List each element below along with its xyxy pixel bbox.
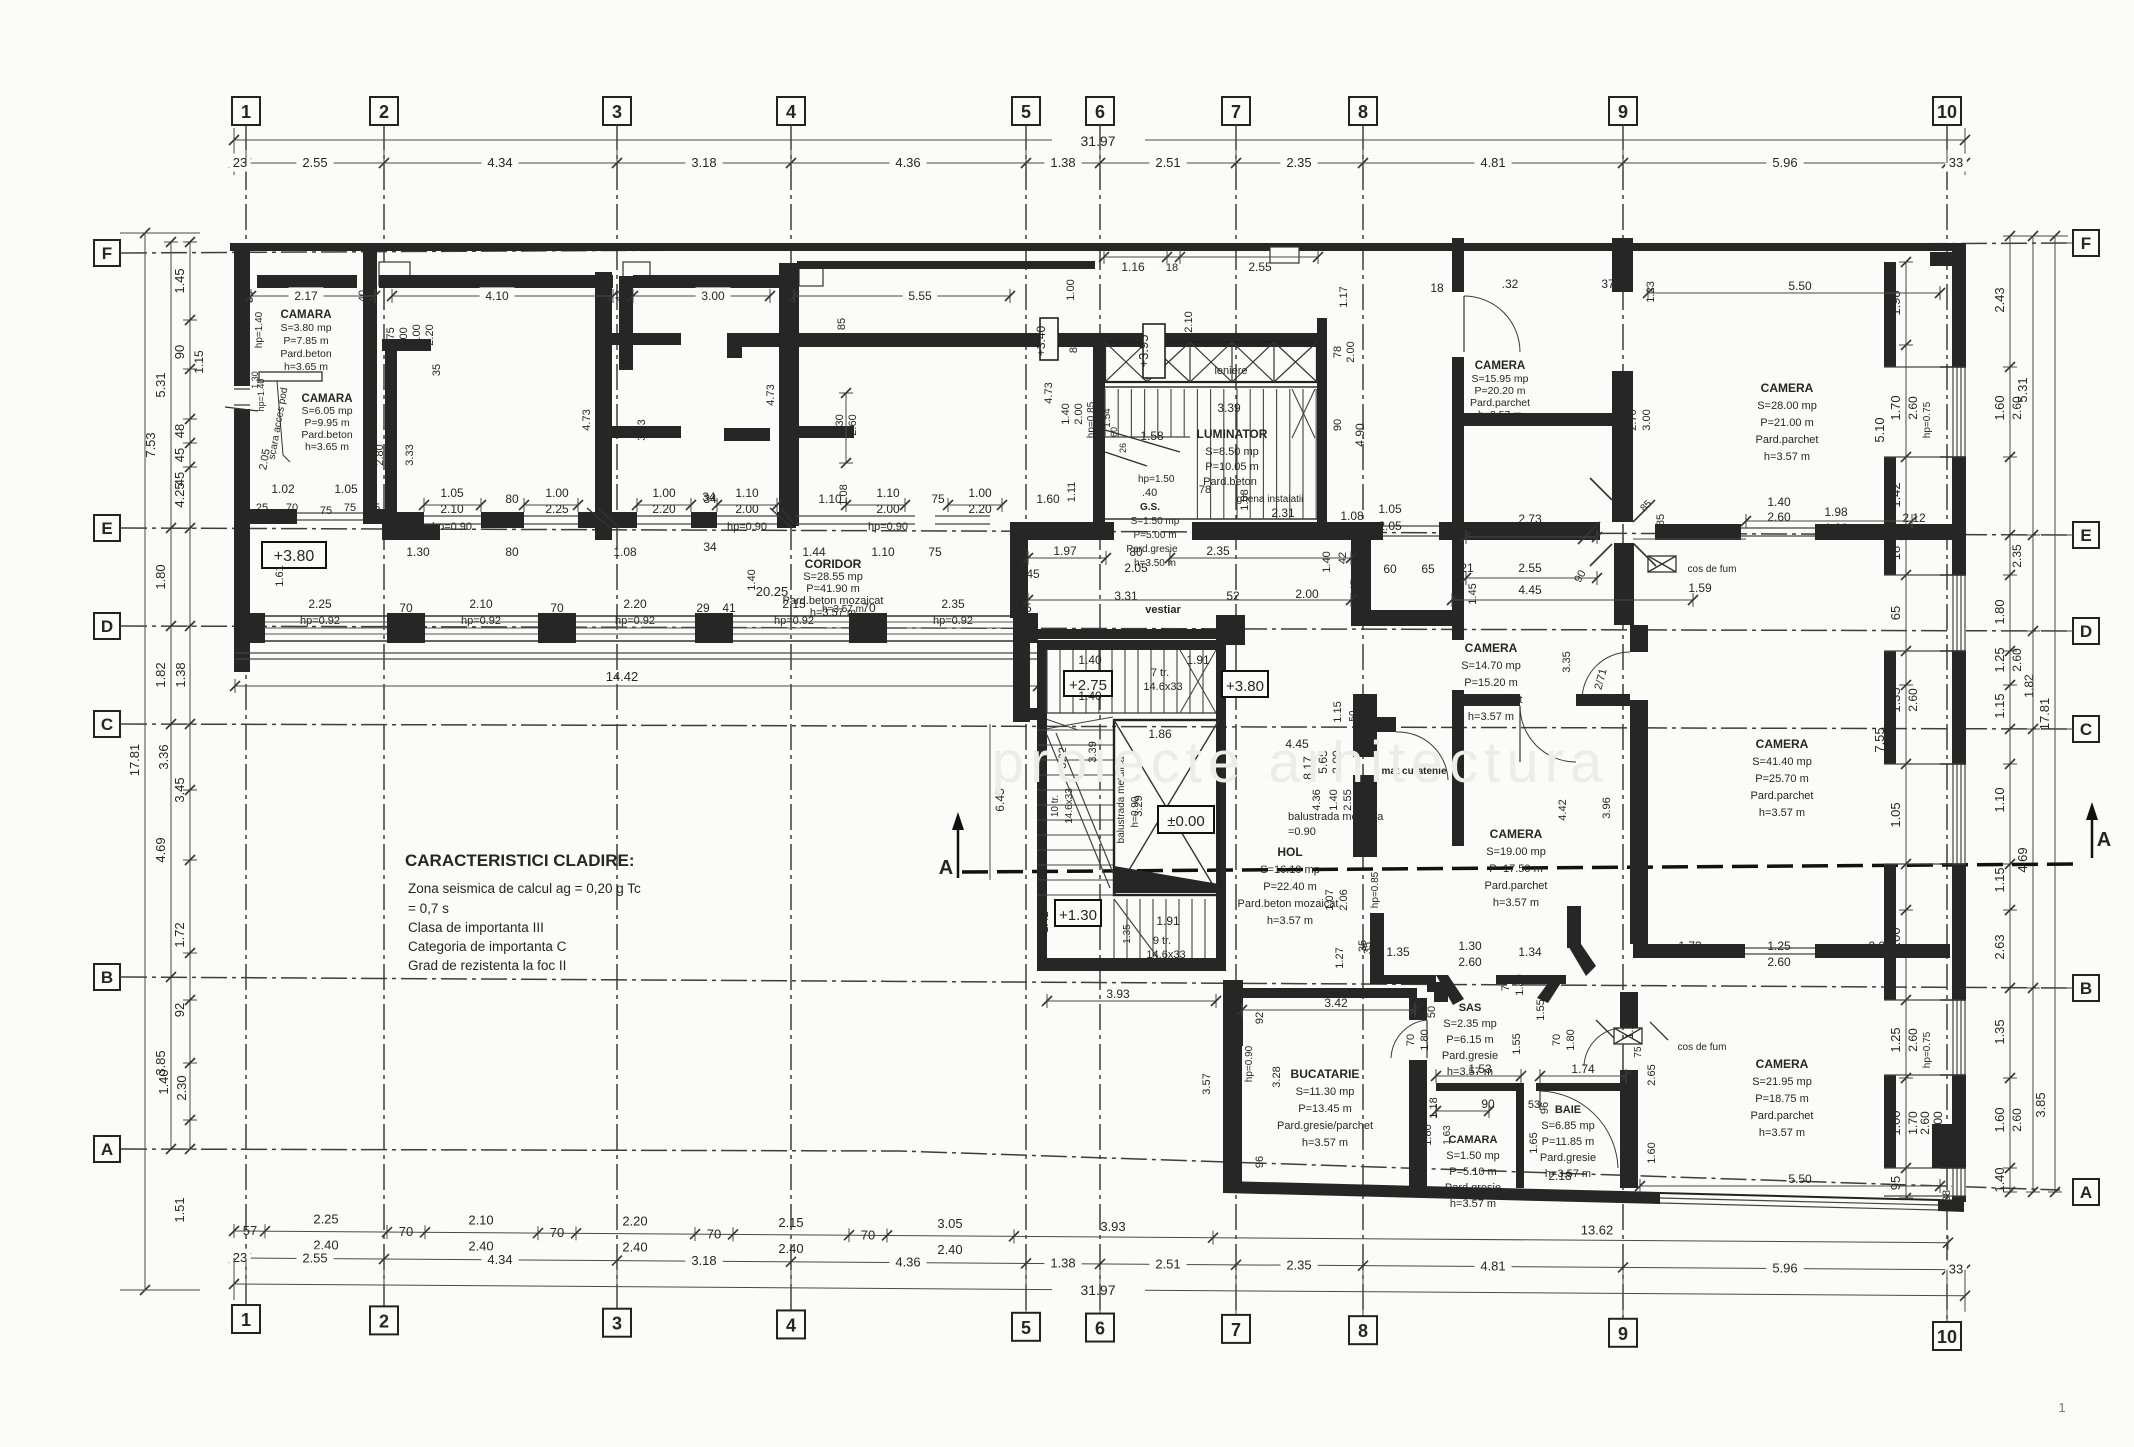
room label CAMERA 28.00 (1756, 381, 1819, 463)
right facade wall inner face + window bays (1884, 262, 1966, 1196)
room label CAMERA 21.95 (1751, 1057, 1814, 1139)
svg-text:4: 4 (786, 1315, 796, 1335)
grid column line 1 (232, 97, 260, 1333)
svg-text:70: 70 (861, 1227, 875, 1242)
svg-text:Pard.gresie: Pard.gresie (1540, 1152, 1596, 1164)
svg-text:1.05: 1.05 (334, 482, 358, 496)
svg-text:leniere: leniere (1214, 365, 1247, 377)
CAMERA 17.50 north wall with door opening (1452, 694, 1520, 706)
svg-text:S=6.85 mp: S=6.85 mp (1541, 1120, 1595, 1132)
left wing south facade wall band along D with window piers (234, 613, 1038, 659)
room label CAMARA 6.05 (301, 393, 353, 453)
svg-text:18: 18 (1166, 262, 1178, 274)
col 3 room divider wall (595, 272, 612, 540)
top dimension chain (bay widths) (229, 125, 1970, 172)
svg-text:P=21.00 m: P=21.00 m (1760, 417, 1814, 429)
svg-text:1: 1 (2058, 1400, 2065, 1415)
bottom rooms dimension labels (1201, 974, 1953, 1202)
grid column line 6 (1086, 97, 1114, 1342)
svg-text:4.50: 4.50 (594, 414, 606, 435)
svg-text:2.40: 2.40 (622, 1240, 647, 1255)
svg-text:17.81: 17.81 (127, 744, 142, 777)
vestiar east wall (1351, 540, 1371, 618)
room label CAMERA 17.50 (1485, 827, 1548, 909)
svg-text:2.20: 2.20 (424, 324, 436, 345)
camara south wall / corridor north wall west part (234, 509, 297, 524)
svg-text:1.91: 1.91 (1156, 914, 1180, 928)
svg-text:95: 95 (1941, 1156, 1953, 1168)
luminator stair treads (1105, 387, 1317, 519)
svg-text:7 tr.: 7 tr. (1151, 667, 1169, 679)
svg-text:3: 3 (612, 102, 622, 122)
svg-text:2.55: 2.55 (302, 1251, 327, 1266)
wall west of CAMERA 15.95 (1452, 357, 1464, 640)
svg-text:1.38: 1.38 (1050, 1256, 1075, 1271)
wall between SAS and CAMARA 1.50 (1436, 1083, 1524, 1091)
svg-text:Pard.beton mozaicat: Pard.beton mozaicat (1238, 898, 1339, 910)
svg-text:43: 43 (614, 290, 626, 302)
svg-text:CORIDOR: CORIDOR (805, 557, 862, 571)
svg-text:31.97: 31.97 (1080, 133, 1115, 149)
room label CAMERA 14.70 (1460, 641, 1523, 723)
stub wall right of col 2 (382, 339, 431, 351)
svg-text:1.25: 1.25 (1992, 647, 2007, 672)
section line A-A (939, 802, 2111, 879)
svg-text:2.00: 2.00 (735, 502, 759, 516)
hall labels right of stair (1288, 750, 1384, 969)
svg-text:3.18: 3.18 (691, 1253, 716, 1268)
svg-text:2.10: 2.10 (1183, 311, 1195, 332)
svg-text:S=41.40 mp: S=41.40 mp (1752, 756, 1812, 768)
svg-text:5.10: 5.10 (1872, 417, 1887, 442)
svg-text:45: 45 (172, 448, 187, 462)
svg-text:1.02: 1.02 (271, 482, 295, 496)
svg-text:3.57: 3.57 (1201, 1073, 1213, 1094)
svg-text:1.40: 1.40 (1060, 403, 1072, 424)
svg-text:Pard.parchet: Pard.parchet (1470, 397, 1530, 409)
svg-text:75: 75 (928, 545, 942, 559)
svg-text:65: 65 (1888, 606, 1903, 620)
svg-text:78: 78 (1199, 484, 1211, 496)
svg-text:2: 2 (379, 1311, 389, 1331)
svg-text:B: B (2080, 979, 2092, 998)
svg-text:85: 85 (1068, 341, 1080, 353)
svg-text:35: 35 (431, 364, 443, 376)
splayed window reveals at col3 (587, 508, 610, 528)
svg-text:1.40: 1.40 (1078, 653, 1102, 667)
svg-text:35: 35 (1225, 996, 1237, 1008)
svg-text:Pard.beton: Pard.beton (280, 348, 332, 360)
svg-text:1.97: 1.97 (1053, 544, 1077, 558)
svg-text:4.10: 4.10 (485, 289, 509, 303)
svg-text:1.44: 1.44 (802, 545, 826, 559)
svg-text:hp=0.90: hp=0.90 (432, 521, 472, 533)
svg-text:CAMERA: CAMERA (1756, 737, 1809, 751)
svg-text:3.39: 3.39 (1217, 401, 1241, 415)
middle block dimension labels (1102, 277, 1926, 821)
svg-text:1.38: 1.38 (1050, 155, 1075, 170)
svg-text:25: 25 (368, 502, 380, 514)
svg-text:2.20: 2.20 (1868, 939, 1892, 953)
svg-text:2.35: 2.35 (1206, 544, 1230, 558)
svg-text:2.40: 2.40 (778, 1241, 803, 1256)
col 9 wall mid (1612, 371, 1633, 522)
svg-text:1.40: 1.40 (1992, 1167, 2007, 1192)
svg-text:D: D (2080, 622, 2092, 641)
level label +3.80 of left wing (262, 542, 326, 568)
svg-text:7: 7 (1231, 102, 1241, 122)
col 3 secondary wall (619, 276, 633, 370)
svg-text:70: 70 (707, 1226, 721, 1241)
svg-text:Pard.gresie/parchet: Pard.gresie/parchet (1277, 1120, 1373, 1132)
svg-text:4: 4 (786, 102, 796, 122)
level box +2.75 (1064, 671, 1112, 696)
svg-text:hp=0.92: hp=0.92 (300, 615, 340, 627)
svg-text:S=1.50 mp: S=1.50 mp (1131, 516, 1180, 527)
svg-text:P=5.00 m: P=5.00 m (1133, 530, 1176, 541)
svg-text:hp=0.92: hp=0.92 (461, 615, 501, 627)
interior dimension labels upper left wing (246, 279, 1097, 502)
svg-text:1.45: 1.45 (1467, 583, 1479, 604)
svg-text:1.30: 1.30 (834, 414, 846, 435)
svg-text:1.60: 1.60 (1036, 492, 1060, 506)
svg-text:5.55: 5.55 (908, 289, 932, 303)
svg-text:1.17: 1.17 (1338, 286, 1350, 307)
svg-text:2.25: 2.25 (308, 597, 332, 611)
svg-text:P=20.20 m: P=20.20 m (1474, 385, 1525, 397)
exterior east wall (1952, 243, 1966, 1202)
svg-text:S=14.70 mp: S=14.70 mp (1461, 660, 1521, 672)
level box +3.40 (1040, 318, 1058, 360)
svg-text:h=3.57 m: h=3.57 m (1468, 711, 1514, 723)
grid column line 4 (777, 97, 805, 1338)
svg-text:E: E (2080, 526, 2091, 545)
svg-text:5: 5 (1021, 1318, 1031, 1338)
svg-text:1.18: 1.18 (1428, 1097, 1440, 1118)
svg-text:cos de fum: cos de fum (1688, 564, 1737, 575)
middle block top dim chain 1.16/2.55 (1099, 250, 1323, 274)
HOL room label (1238, 845, 1339, 927)
svg-text:S=11.30 mp: S=11.30 mp (1296, 1086, 1355, 1098)
svg-text:23: 23 (233, 1250, 247, 1265)
middle block south wall on E line (1010, 522, 1114, 540)
grid row line B (94, 964, 2099, 1001)
svg-text:1.45: 1.45 (172, 268, 187, 293)
svg-text:1.72: 1.72 (172, 922, 187, 947)
svg-text:24: 24 (237, 630, 249, 642)
bottom overall dimension line 31.97 (229, 1258, 1970, 1312)
svg-text:1.30: 1.30 (1458, 939, 1482, 953)
svg-text:3.28: 3.28 (1271, 1066, 1283, 1087)
middle block west wall (1093, 333, 1105, 526)
svg-text:50: 50 (1348, 710, 1359, 722)
svg-text:4.36: 4.36 (895, 155, 920, 170)
svg-text:70: 70 (286, 502, 298, 514)
svg-text:CAMERA: CAMERA (1756, 1057, 1809, 1071)
splayed window reveals at col4 (770, 508, 792, 528)
svg-text:1.51: 1.51 (172, 1197, 187, 1222)
window sill labels along D facade (235, 597, 1032, 642)
svg-text:3.33: 3.33 (404, 444, 416, 465)
svg-text:1: 1 (241, 102, 251, 122)
svg-text:96: 96 (1254, 1156, 1266, 1168)
svg-text:CAMARA: CAMARA (280, 309, 331, 321)
svg-text:CAMERA: CAMERA (1490, 827, 1543, 841)
svg-text:1.61: 1.61 (274, 565, 286, 586)
svg-text:BAIE: BAIE (1555, 1104, 1581, 1116)
svg-text:2.18: 2.18 (1548, 1169, 1572, 1183)
svg-text:70: 70 (1500, 979, 1512, 991)
svg-text:3.93: 3.93 (1106, 987, 1130, 1001)
parallel wall col 2 (385, 340, 397, 516)
svg-text:4.42: 4.42 (1557, 799, 1569, 820)
svg-text:70: 70 (550, 1225, 564, 1240)
svg-text:2.17: 2.17 (294, 289, 318, 303)
stair entry door splay (1040, 717, 1113, 730)
svg-text:96: 96 (1539, 1102, 1551, 1114)
svg-text:1.82: 1.82 (153, 662, 168, 687)
svg-text:3.00: 3.00 (1641, 409, 1653, 430)
svg-text:10: 10 (1937, 1327, 1957, 1347)
svg-text:vestiar: vestiar (1145, 604, 1181, 616)
svg-text:h=3.57 m: h=3.57 m (1759, 1127, 1805, 1139)
svg-text:1.15: 1.15 (1992, 867, 2007, 892)
chamfered reveals at col9 crossing (1578, 478, 1656, 566)
col 3 closet stubs (612, 333, 681, 345)
svg-text:2.20: 2.20 (968, 502, 992, 516)
grid row line A (slanted) (94, 1136, 2099, 1205)
svg-text:S=6.05 mp: S=6.05 mp (301, 405, 352, 417)
svg-text:80: 80 (505, 545, 519, 559)
svg-text:75: 75 (320, 505, 332, 517)
svg-text:9: 9 (1618, 102, 1628, 122)
svg-text:2.35: 2.35 (2010, 544, 2024, 568)
left wing inner north wall (257, 275, 357, 288)
north wall of 5.55 room (797, 261, 1095, 269)
svg-text:1.38: 1.38 (173, 662, 188, 687)
svg-text:37: 37 (1601, 277, 1615, 291)
wall stub below stair block (1223, 980, 1243, 1046)
svg-text:26: 26 (1118, 443, 1128, 453)
svg-text:h=3.57 m: h=3.57 m (822, 604, 864, 615)
svg-text:1.60: 1.60 (1992, 1107, 2007, 1132)
svg-text:4.90: 4.90 (1353, 423, 1367, 447)
svg-text:95: 95 (1888, 1176, 1903, 1190)
svg-text:2.10: 2.10 (469, 597, 493, 611)
luminator room label (1197, 401, 1268, 488)
svg-text:1.10: 1.10 (735, 486, 759, 500)
svg-text:P=6.15 m: P=6.15 m (1446, 1034, 1493, 1046)
svg-text:Pard.parchet: Pard.parchet (1460, 694, 1523, 706)
svg-text:P=13.45 m: P=13.45 m (1298, 1103, 1352, 1115)
svg-text:hp=1.40: hp=1.40 (254, 311, 265, 348)
svg-text:3.36: 3.36 (156, 744, 171, 769)
svg-text:B: B (101, 968, 113, 987)
svg-text:2.60: 2.60 (1906, 688, 1920, 712)
svg-text:hp=1.50: hp=1.50 (1138, 474, 1175, 485)
svg-text:31.97: 31.97 (1080, 1282, 1115, 1298)
svg-text:1.66: 1.66 (1824, 521, 1848, 535)
level box +3.80 (hall) (1222, 671, 1268, 697)
door gap rectangles between outer and inner wall (379, 262, 410, 286)
svg-text:P=9.95 m: P=9.95 m (304, 417, 349, 429)
col 4 closet stubs (extending west) (724, 428, 770, 441)
room label CAMERA 41.40 (1751, 737, 1814, 819)
svg-text:60: 60 (1109, 427, 1119, 437)
svg-text:1.05: 1.05 (1378, 502, 1402, 516)
svg-text:4.81: 4.81 (1480, 155, 1505, 170)
svg-text:1.35: 1.35 (1992, 1019, 2007, 1044)
svg-text:hp=0.92: hp=0.92 (774, 615, 814, 627)
svg-text:A: A (2080, 1183, 2092, 1202)
svg-text:1.60: 1.60 (1646, 1142, 1658, 1163)
svg-text:2.60: 2.60 (1906, 396, 1920, 420)
svg-text:48: 48 (172, 424, 187, 438)
svg-text:2.63: 2.63 (1992, 934, 2007, 959)
svg-text:2.55: 2.55 (302, 155, 327, 170)
middle block east wall upper (1317, 318, 1327, 540)
svg-text:A: A (101, 1140, 113, 1159)
BAIE east wall / CAMERA west wall (1620, 992, 1638, 1028)
svg-text:P=18.75 m: P=18.75 m (1755, 1093, 1809, 1105)
svg-text:2.20: 2.20 (622, 1214, 647, 1229)
svg-text:S=1.50 mp: S=1.50 mp (1446, 1150, 1500, 1162)
level box +1.30 (1055, 900, 1101, 926)
svg-text:5.96: 5.96 (1772, 1261, 1797, 1276)
svg-text:BUCATARIE: BUCATARIE (1291, 1067, 1360, 1081)
svg-text:hp=0.85: hp=0.85 (1086, 401, 1097, 438)
grid row line D (94, 613, 2099, 644)
svg-text:2.60: 2.60 (1767, 955, 1791, 969)
svg-text:2.20: 2.20 (623, 597, 647, 611)
svg-text:1.80: 1.80 (153, 564, 168, 589)
svg-text:Pard.parchet: Pard.parchet (1751, 1110, 1814, 1122)
window dimension labels on E line (left wing) (256, 482, 1060, 591)
svg-text:5: 5 (1021, 102, 1031, 122)
svg-text:10 tr.: 10 tr. (1050, 795, 1061, 817)
svg-text:92: 92 (1254, 1012, 1266, 1024)
col 9 wall below E (1614, 543, 1634, 625)
svg-text:S=28.00 mp: S=28.00 mp (1757, 400, 1817, 412)
svg-text:52: 52 (1226, 589, 1240, 603)
svg-text:4.69: 4.69 (2015, 847, 2030, 872)
svg-text:hp=0.75: hp=0.75 (1922, 401, 1933, 438)
svg-text:2.43: 2.43 (1992, 287, 2007, 312)
svg-text:Zona seismica de calcul ag =: Zona seismica de calcul ag = 0,20 g Tc (408, 881, 641, 896)
svg-text:70: 70 (550, 601, 564, 615)
stair block east wall (1216, 640, 1226, 971)
svg-text:2.60: 2.60 (1906, 1028, 1920, 1052)
svg-text:1.53: 1.53 (1468, 1062, 1492, 1076)
svg-text:75: 75 (344, 502, 356, 514)
dim line 5.50 camera 28 (1633, 286, 1945, 539)
svg-text:.32: .32 (1502, 277, 1519, 291)
svg-text:Pard.parchet: Pard.parchet (1751, 790, 1814, 802)
window in west wall (225, 386, 258, 411)
bucatarie north wall (1242, 988, 1417, 998)
svg-text:1.40: 1.40 (1321, 551, 1333, 572)
svg-text:1.70: 1.70 (1888, 395, 1903, 420)
grid column line 10 (1933, 97, 1961, 1350)
svg-text:1.80: 1.80 (1565, 1029, 1577, 1050)
svg-text:1.11: 1.11 (1066, 482, 1078, 503)
svg-text:1.40: 1.40 (1767, 495, 1791, 509)
svg-text:1.15: 1.15 (1332, 701, 1344, 722)
svg-text:14.6x33: 14.6x33 (1146, 949, 1185, 961)
svg-text:1.60: 1.60 (1992, 395, 2007, 420)
svg-text:LUMINATOR: LUMINATOR (1197, 427, 1268, 441)
svg-text:h=3.65 m: h=3.65 m (305, 441, 349, 453)
svg-text:CAMERA: CAMERA (1465, 641, 1518, 655)
svg-text:4.34: 4.34 (487, 155, 512, 170)
wall stub south of vestiar (1216, 615, 1245, 645)
svg-text:= 0,7 s: = 0,7 s (408, 901, 449, 916)
svg-text:P=15.20 m: P=15.20 m (1464, 677, 1518, 689)
svg-text:S=16.10 mp: S=16.10 mp (1260, 864, 1320, 876)
svg-text:10: 10 (1937, 102, 1957, 122)
right vertical dimension chain outer (1992, 231, 2036, 1197)
svg-text:65: 65 (1421, 562, 1435, 576)
svg-text:h=3.57 m: h=3.57 m (1759, 807, 1805, 819)
svg-text:6: 6 (1095, 102, 1105, 122)
left overall vertical dimension line 17.81 (120, 228, 200, 1295)
svg-text:3.96: 3.96 (1601, 797, 1613, 818)
svg-text:2.10: 2.10 (440, 502, 464, 516)
svg-text:1.80: 1.80 (1514, 974, 1526, 995)
svg-text:C: C (101, 715, 113, 734)
svg-text:CAMARA: CAMARA (1449, 1134, 1498, 1146)
CAMARA/BAIE divider wall (1516, 1091, 1524, 1188)
CARACTERISTICI CLADIRE text block (405, 851, 641, 973)
right outer vertical dimension line (2010, 231, 2068, 1197)
svg-text:13.62: 13.62 (1581, 1222, 1614, 1237)
svg-text:hp=0.90: hp=0.90 (727, 521, 767, 533)
svg-text:1.40: 1.40 (1078, 689, 1102, 703)
svg-text:2.00: 2.00 (1295, 587, 1319, 601)
svg-text:1.55: 1.55 (1511, 1033, 1523, 1054)
svg-text:1.82: 1.82 (2022, 674, 2036, 698)
svg-text:cos de fum: cos de fum (1678, 1042, 1727, 1053)
svg-text:3.45: 3.45 (172, 777, 187, 802)
svg-text:90: 90 (1481, 1097, 1495, 1111)
svg-text:8: 8 (1358, 102, 1368, 122)
svg-text:P=22.40 m: P=22.40 m (1263, 881, 1317, 893)
svg-text:90: 90 (172, 345, 187, 359)
svg-text:hp=0.92: hp=0.92 (615, 615, 655, 627)
svg-text:2.60: 2.60 (2010, 648, 2024, 672)
svg-text:S=21.95 mp: S=21.95 mp (1752, 1076, 1812, 1088)
svg-text:1.80: 1.80 (1422, 1124, 1434, 1145)
6.45 dimension (990, 724, 1007, 880)
svg-text:2.15: 2.15 (782, 597, 806, 611)
svg-text:85: 85 (836, 318, 848, 330)
wall left of stair below D (1013, 617, 1030, 722)
svg-text:h=3.57 m: h=3.57 m (1450, 1198, 1496, 1210)
svg-text:2.15: 2.15 (778, 1215, 803, 1230)
svg-text:+3.80: +3.80 (274, 548, 315, 565)
upper plenum south wall (long wall at +3.40 level) (730, 333, 1317, 347)
svg-text:SAS: SAS (1459, 1002, 1482, 1014)
svg-text:hp=0.90: hp=0.90 (868, 521, 908, 533)
svg-text:P=11.85 m: P=11.85 m (1542, 1136, 1595, 1148)
svg-text:45: 45 (395, 626, 407, 638)
svg-text:1.00: 1.00 (968, 486, 992, 500)
dim lines left wing window row (419, 498, 1007, 512)
svg-text:4.33: 4.33 (1635, 700, 1649, 724)
svg-text:Clasa de importanta III: Clasa de importanta III (408, 920, 544, 935)
svg-text:4.25: 4.25 (172, 482, 187, 507)
svg-text:h=3.65 m: h=3.65 m (284, 361, 328, 373)
